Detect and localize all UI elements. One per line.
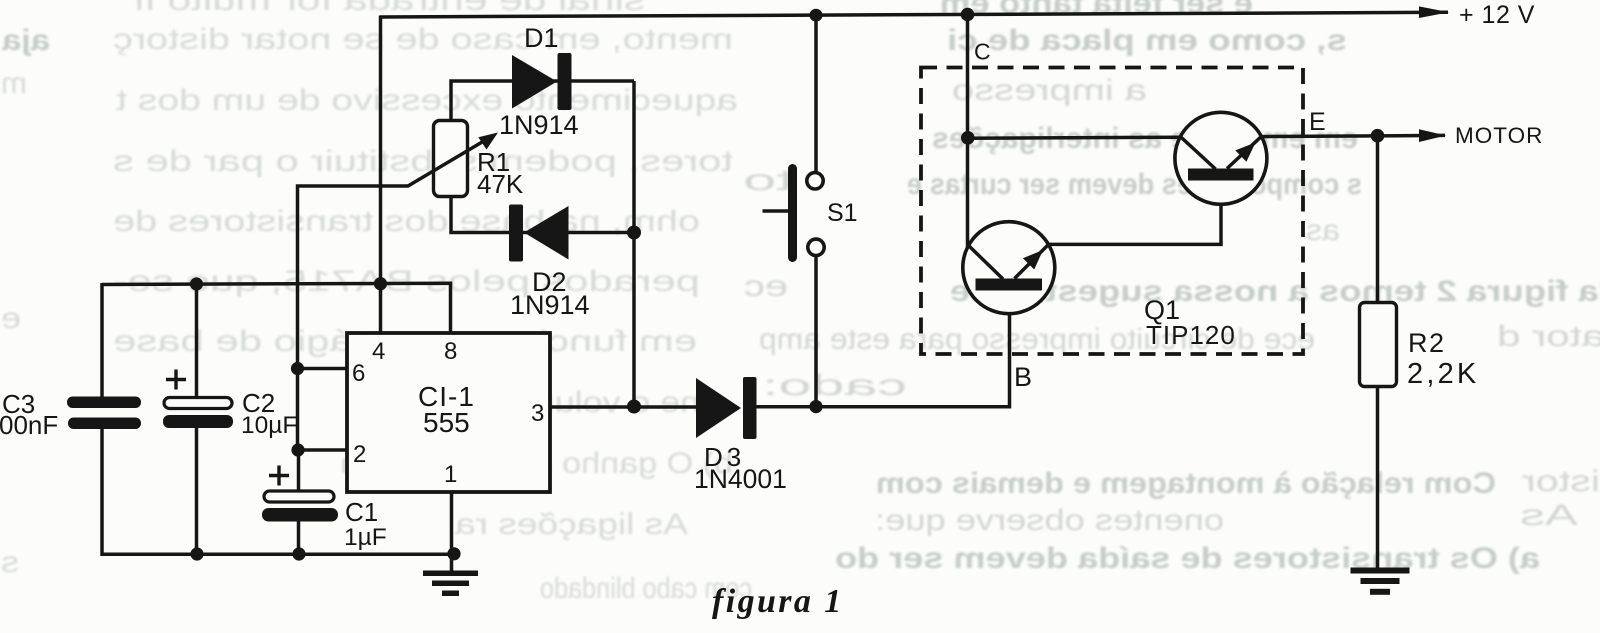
transistor Q1b circle xyxy=(1175,112,1267,204)
wire C2 bottom drop xyxy=(195,428,199,555)
dashed box TIP120 xyxy=(921,68,1303,355)
+12V arrowhead xyxy=(1419,6,1449,18)
transistor Q1b emitter arrow xyxy=(1235,143,1255,162)
wire C1 bottom drop xyxy=(297,521,301,555)
wire +12V rail xyxy=(380,12,1448,17)
svg-text:R2: R2 xyxy=(1408,328,1446,358)
svg-text:1N914: 1N914 xyxy=(499,110,579,140)
svg-text:aja: aja xyxy=(2,24,50,57)
svg-text:C: C xyxy=(974,39,991,65)
potentiometer R1 body xyxy=(434,121,468,197)
svg-text:1N4001: 1N4001 xyxy=(694,464,787,494)
svg-text:cado:: cado: xyxy=(762,369,907,402)
wire R2 bottom xyxy=(1376,387,1380,569)
capacitor C1 xyxy=(262,491,338,522)
wire D3 cathode to B corner xyxy=(756,290,1010,407)
svg-text:m: m xyxy=(1,67,27,100)
svg-text:4: 4 xyxy=(372,338,385,365)
node collectors tie xyxy=(961,131,975,145)
svg-text:ator d: ator d xyxy=(1497,320,1600,353)
svg-text:D1: D1 xyxy=(524,23,559,53)
pin 3 xyxy=(531,400,544,427)
svg-text:C1: C1 xyxy=(345,497,378,527)
label C xyxy=(974,39,991,65)
potentiometer R1 wiper arrow xyxy=(478,133,498,150)
node R2 top / motor junction xyxy=(1371,129,1385,143)
pin 4 xyxy=(372,338,385,365)
ground under R2 xyxy=(1351,568,1410,595)
transistor Q1a collector lead xyxy=(969,246,1004,280)
svg-text:s: s xyxy=(1,546,19,579)
label MOTOR xyxy=(1455,123,1543,148)
label D1 xyxy=(499,23,579,140)
svg-text:10µF: 10µF xyxy=(241,412,297,439)
pin 1 xyxy=(444,461,457,488)
diode D1 xyxy=(512,53,572,110)
wire C3 bottom drop xyxy=(100,429,104,556)
wire emitter E to motor xyxy=(1261,135,1445,136)
svg-text:to: to xyxy=(743,164,793,197)
capacitor C3 xyxy=(67,397,141,430)
transistor Q1a circle xyxy=(963,222,1055,314)
wire left vertical from rail to pin 4 xyxy=(379,16,383,334)
svg-text:MOTOR: MOTOR xyxy=(1455,123,1543,148)
transistor Q1b collector lead xyxy=(1181,137,1216,169)
label C2 xyxy=(241,388,297,439)
label S1 xyxy=(827,199,858,227)
svg-text:istor: istor xyxy=(1522,465,1600,498)
svg-text:Com relação à montagem e demai: Com relação à montagem e demais com xyxy=(876,467,1496,500)
resistor R2 body xyxy=(1360,303,1397,387)
svg-text:3: 3 xyxy=(531,400,544,427)
wire C3 top drop xyxy=(100,283,104,397)
node ground rail / pin1 xyxy=(447,547,460,560)
svg-text:47K: 47K xyxy=(477,169,524,199)
node pin3 wire / loop junction xyxy=(627,400,641,414)
svg-text:6: 6 xyxy=(352,360,365,387)
wire pin2 stub xyxy=(298,448,348,452)
svg-text:8: 8 xyxy=(444,338,457,365)
wire pin3 output xyxy=(550,405,696,409)
wire C1 top drop xyxy=(297,450,301,490)
svg-text:a impresso: a impresso xyxy=(952,74,1147,107)
svg-text:ec: ec xyxy=(744,270,788,303)
svg-text:S1: S1 xyxy=(827,199,858,227)
svg-text:E: E xyxy=(1309,108,1326,136)
diode D3 xyxy=(696,377,757,439)
svg-text:1: 1 xyxy=(444,461,457,488)
label D3 xyxy=(694,442,787,494)
svg-text:s, como em placa de ci: s, como em placa de ci xyxy=(947,24,1347,57)
svg-text:B: B xyxy=(1014,362,1032,392)
IC U1 555 box xyxy=(347,333,550,492)
capacitor C1 polarity plus xyxy=(269,466,289,486)
label Q1 TIP120 xyxy=(1144,295,1236,350)
wire Vcc rail y=283 xyxy=(102,283,451,333)
svg-text:tores, podem substituir o par: tores, podem substituir o par de s xyxy=(113,145,733,178)
wire R1 bottom to D2 branch xyxy=(451,196,634,233)
node pin4/rail junction xyxy=(374,277,387,290)
svg-text:a) Os transistores de saída de: a) Os transistores de saída devem ser do xyxy=(835,542,1540,575)
wire wiper net: R1 wiper to pins 6-2 vertical xyxy=(298,142,484,451)
svg-text:TIP120: TIP120 xyxy=(1146,320,1236,350)
wire pin1 to ground xyxy=(450,492,454,571)
label E xyxy=(1309,108,1326,136)
node C1 bottom xyxy=(292,547,305,560)
wire collectors horizontal to Q1b left edge xyxy=(968,137,1182,138)
switch S1 stem xyxy=(763,209,789,212)
node pin6 junction xyxy=(291,362,304,375)
svg-text:as: as xyxy=(1306,214,1340,247)
node S1 bottom junction xyxy=(809,400,822,413)
switch S1 bottom wire xyxy=(814,255,818,406)
svg-text:2,2K: 2,2K xyxy=(1407,358,1479,390)
wire D1 branch top xyxy=(451,81,634,121)
transistor Q1a emitter lead xyxy=(1015,244,1049,278)
svg-text:+ 12 V: + 12 V xyxy=(1459,1,1535,29)
label D2 xyxy=(510,267,590,320)
wire ground rail bottom xyxy=(101,553,455,557)
label B xyxy=(1014,362,1032,392)
label C1 xyxy=(344,497,387,551)
node S1 top on +12V rail xyxy=(810,9,823,22)
svg-text:mento, em caso de se notar dis: mento, em caso de se notar distorç xyxy=(113,23,733,56)
svg-text:00nF: 00nF xyxy=(0,410,58,440)
pin 8 xyxy=(444,338,457,365)
switch S1 top wire xyxy=(814,15,818,173)
svg-text:e: e xyxy=(1,302,21,335)
node C2 top junction xyxy=(190,277,203,290)
svg-text:2: 2 xyxy=(353,441,366,468)
MOTOR arrowhead xyxy=(1419,129,1446,142)
wire R2 top xyxy=(1376,136,1380,303)
node C collector tie on +12V rail xyxy=(961,8,975,22)
switch S1 contacts xyxy=(807,173,824,256)
node C2 bottom xyxy=(190,547,203,560)
label C3 xyxy=(0,389,58,440)
label CI-1 555 xyxy=(418,381,475,438)
svg-text:555: 555 xyxy=(423,407,470,438)
svg-text:e ser feita tanto em: e ser feita tanto em xyxy=(940,0,1253,20)
svg-text:As: As xyxy=(1520,499,1578,532)
svg-text:s componentes devem ser curtas: s componentes devem ser curtas e xyxy=(907,168,1362,201)
caption figura 1 xyxy=(712,583,844,620)
wire Q1a emitter to Q1b base xyxy=(1049,180,1221,244)
transistor Q1a emitter arrow xyxy=(1023,250,1043,270)
switch S1 actuator xyxy=(788,164,797,262)
svg-text:1µF: 1µF xyxy=(344,524,387,551)
transistor Q1b emitter lead xyxy=(1227,137,1261,169)
transistor Q1a base bar xyxy=(976,279,1043,291)
node pin2 junction xyxy=(291,443,304,456)
node D2 right junction xyxy=(627,226,641,240)
label R2 2,2K xyxy=(1407,328,1479,390)
transistor Q1b base bar xyxy=(1188,169,1254,181)
capacitor C2 polarity plus xyxy=(166,370,186,390)
pin 2 xyxy=(353,441,366,468)
label R1 47K xyxy=(477,147,524,199)
wire pin6 stub xyxy=(298,367,349,371)
wire C2 top drop xyxy=(195,284,199,397)
label +12V xyxy=(1459,1,1535,29)
ground under pin 1 xyxy=(423,571,478,597)
pin 6 xyxy=(352,360,365,387)
svg-text:As ligações ra: As ligações ra xyxy=(455,508,688,541)
wire collector vertical from rail xyxy=(966,15,970,247)
svg-text:1N914: 1N914 xyxy=(510,290,590,320)
diode D2 xyxy=(509,205,569,262)
wire D1/D2 right vertical down to pin3 net xyxy=(632,81,636,407)
svg-text:aquecimento excessivo de um do: aquecimento excessivo de um dos t xyxy=(115,84,738,117)
capacitor C2 xyxy=(163,398,233,429)
svg-text:onentes observe que:: onentes observe que: xyxy=(875,504,1224,537)
svg-text:figura 1: figura 1 xyxy=(712,583,844,620)
